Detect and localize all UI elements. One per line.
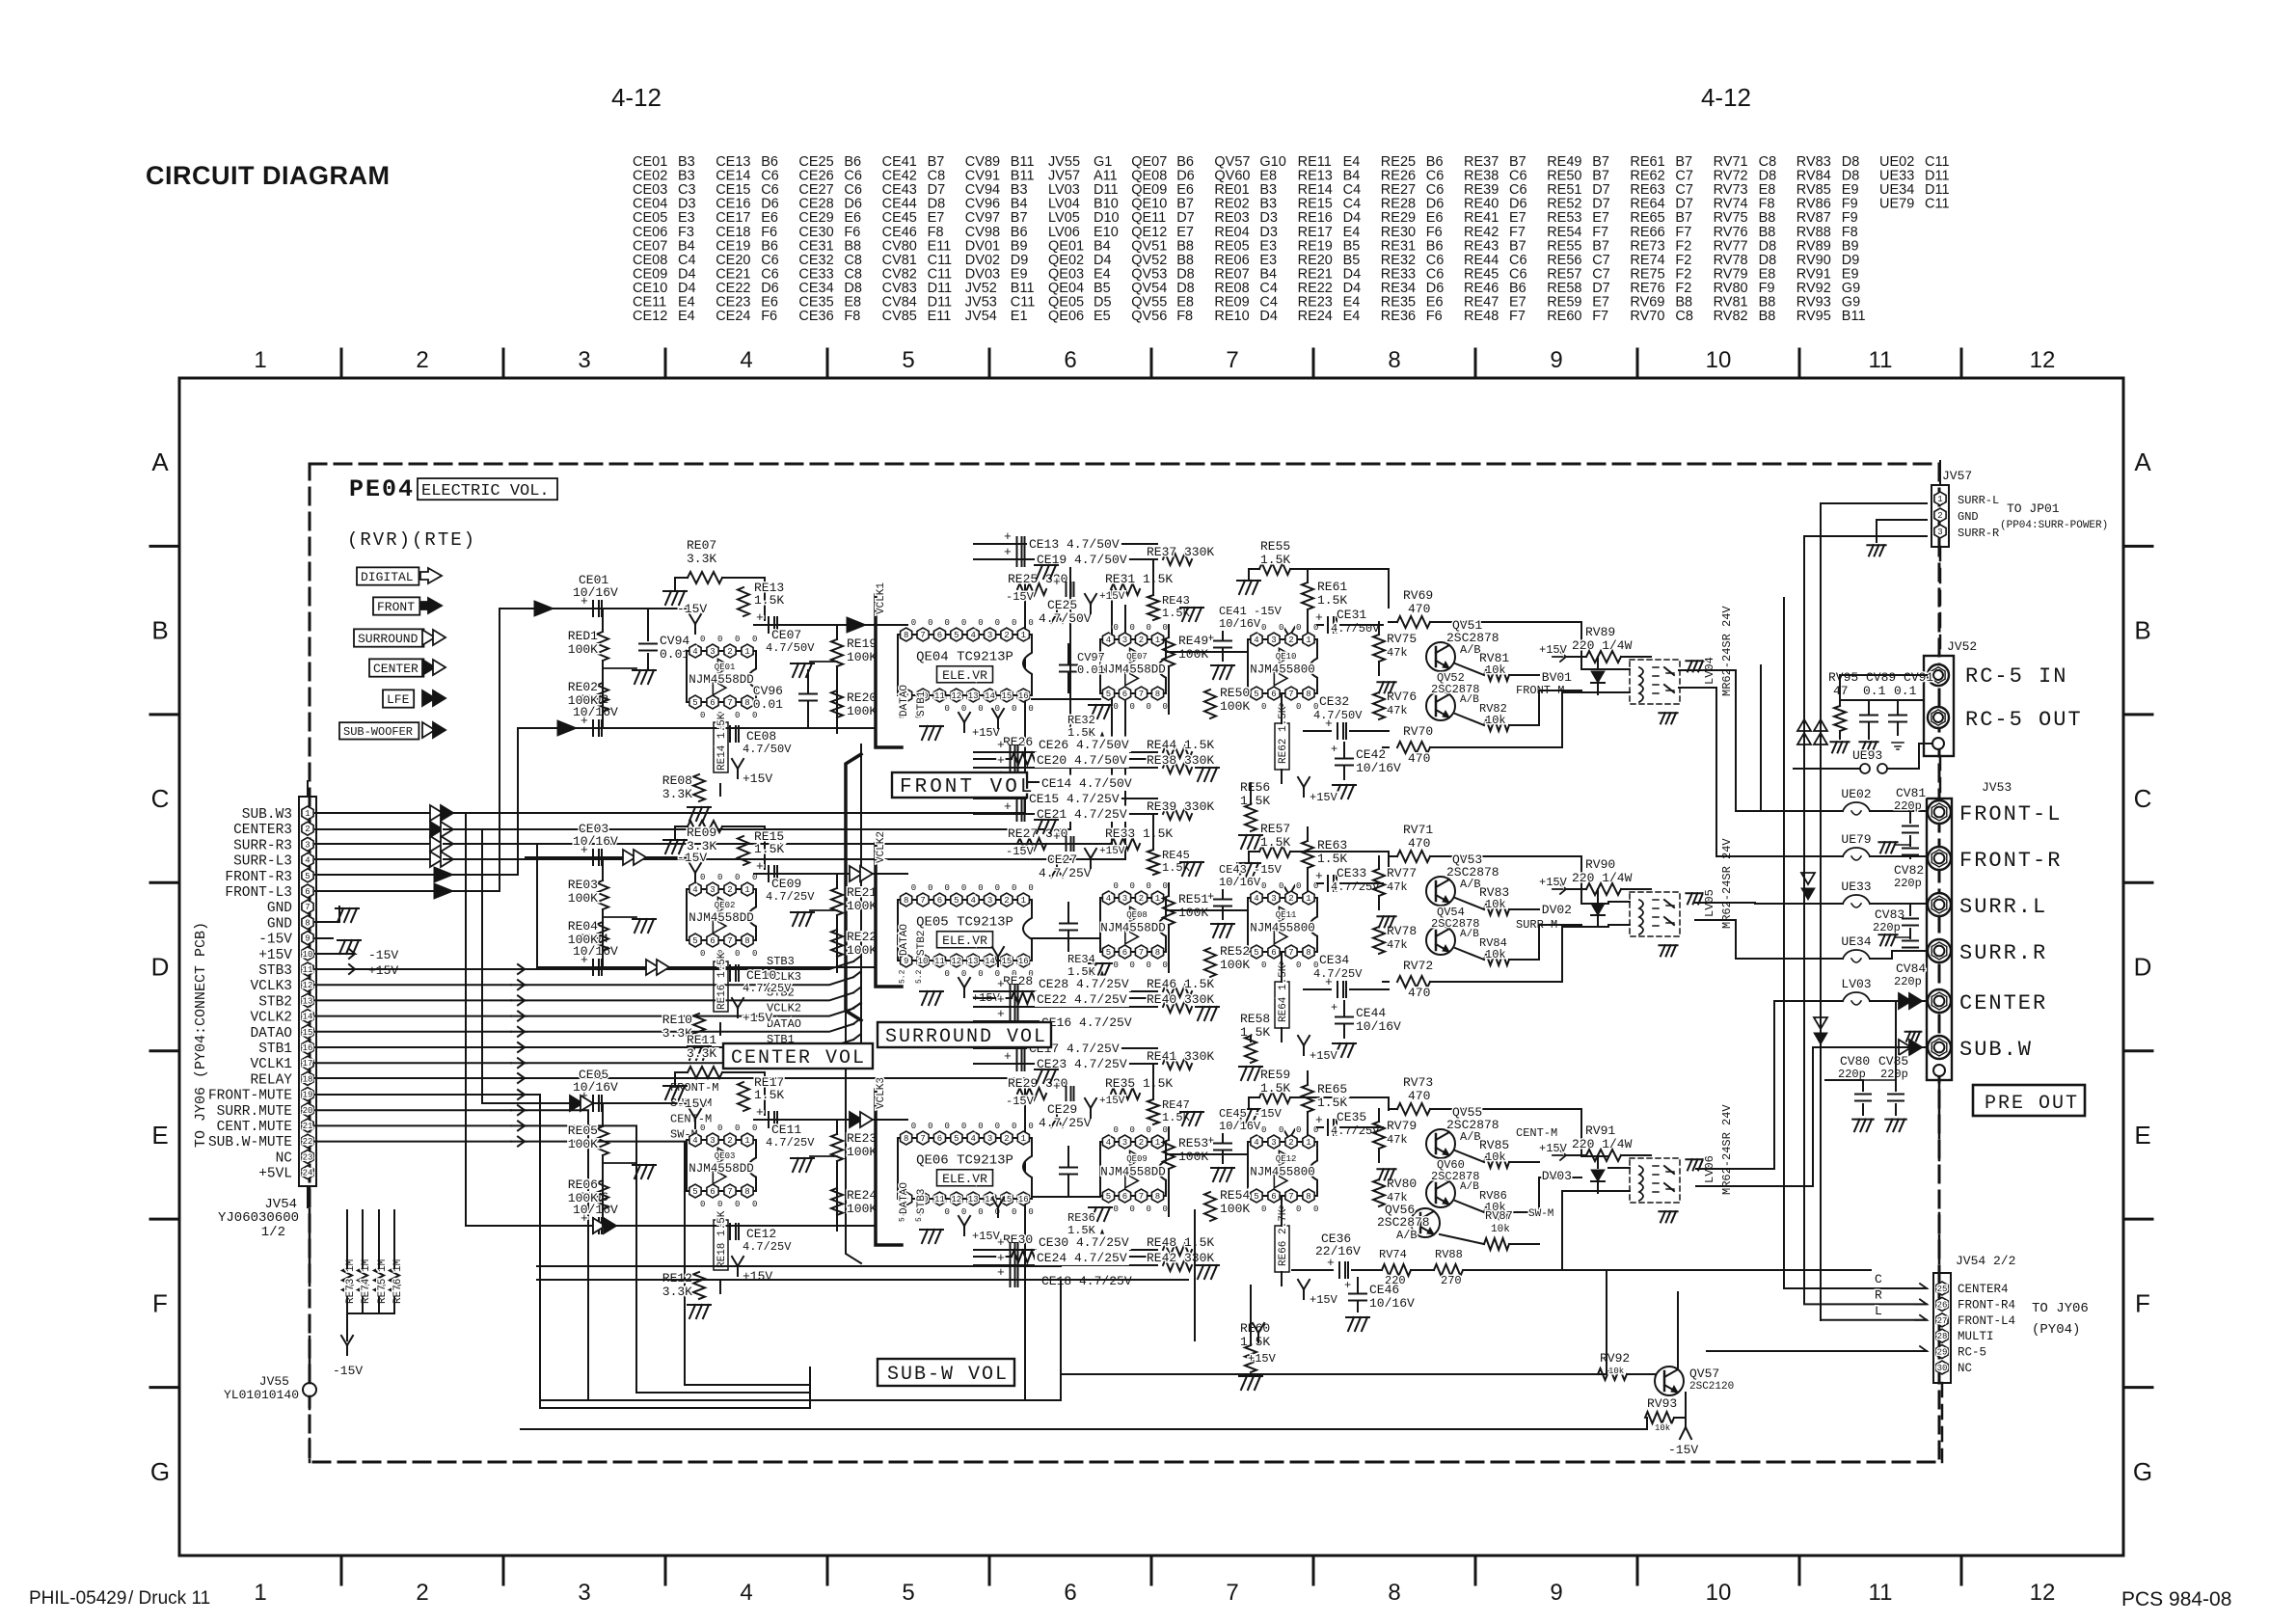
svg-text:47k: 47k: [1387, 646, 1408, 660]
svg-text:2: 2: [1004, 1134, 1009, 1144]
svg-text:220p: 220p: [1894, 975, 1922, 988]
resistor RE11 3.3K: [688, 1067, 722, 1078]
svg-text:10/16V: 10/16V: [573, 585, 618, 600]
wire JV57 SURR-R: [1804, 535, 1927, 537]
dashed line below JV53: [1938, 1080, 1941, 1263]
svg-text:+15V: +15V: [1310, 1049, 1338, 1063]
svg-text:0: 0: [928, 618, 932, 628]
arrow pair up bus2: [1814, 719, 1827, 744]
svg-text:CENT.MUTE: CENT.MUTE: [217, 1120, 292, 1135]
wire front stage1 out: [754, 624, 907, 626]
resistor RV87 10k: [1484, 1238, 1509, 1250]
resistor RE57 1.5K: [1259, 846, 1290, 857]
resistor RE23 100K: [831, 1134, 843, 1161]
power +15V stage3 front: [1303, 787, 1305, 797]
svg-text:13: 13: [968, 1195, 979, 1204]
svg-text:0: 0: [1130, 623, 1135, 633]
svg-text:RE10: RE10: [1214, 309, 1249, 324]
svg-text:0: 0: [1130, 1204, 1135, 1214]
svg-text:CV96: CV96: [753, 684, 783, 698]
wire FRONT-R3 riser: [315, 728, 540, 875]
wire bottom continuation front: [758, 727, 876, 729]
resistor front RE26-type 330: [1012, 753, 1039, 765]
svg-text:SURR-L: SURR-L: [1958, 494, 1999, 507]
svg-text:SURR.R: SURR.R: [1959, 941, 2047, 965]
arrow center mid: [850, 1112, 862, 1127]
svg-text:0: 0: [1130, 1125, 1135, 1135]
svg-text:CE14 4.7/50V: CE14 4.7/50V: [1041, 776, 1132, 791]
svg-text:RE36: RE36: [1067, 1211, 1095, 1225]
resistor RE35 1.5K: [1111, 1088, 1140, 1099]
jack FRONT-R: [1928, 847, 1951, 870]
svg-text:LFE: LFE: [387, 692, 410, 707]
wire input A front: [526, 608, 687, 609]
svg-text:RE12: RE12: [662, 1271, 692, 1286]
wire RE66 column: [1194, 1210, 1196, 1340]
svg-text:SURR.L: SURR.L: [1959, 895, 2047, 919]
output riser CENTER: [1696, 1001, 1794, 1169]
resistor RV88 270: [1434, 1264, 1463, 1276]
wire FRONT-L3 riser: [315, 609, 526, 891]
capacitor CV center: [1060, 1167, 1077, 1169]
svg-text:CE08: CE08: [746, 729, 776, 744]
resistor mid front RE32-type: [1082, 734, 1109, 745]
resistor RE45 1.5K right: [1148, 850, 1159, 875]
svg-text:CV82: CV82: [1894, 863, 1924, 878]
wire QE12 in: [1166, 1153, 1248, 1155]
resistor RV85 10k: [1484, 1156, 1509, 1168]
svg-text:CE46: CE46: [1369, 1283, 1399, 1297]
resistor RE76 1M: [390, 1268, 399, 1297]
svg-text:0: 0: [700, 635, 705, 644]
svg-text:JV55: JV55: [259, 1374, 289, 1389]
resistor RE75 1M: [374, 1268, 384, 1297]
resistor RE25 330: [1017, 583, 1046, 595]
resistor RV75 47k: [1373, 635, 1385, 662]
svg-text:SUB.W-MUTE: SUB.W-MUTE: [208, 1135, 292, 1150]
svg-text:0: 0: [752, 711, 757, 720]
svg-text:100K: 100K: [1220, 699, 1250, 714]
wire long center-bottom: [537, 1279, 1188, 1281]
svg-text:4.7/25V: 4.7/25V: [766, 1136, 815, 1150]
svg-text:1: 1: [744, 1136, 749, 1146]
svg-text:6: 6: [1122, 1192, 1127, 1202]
svg-text:+15V: +15V: [1539, 876, 1568, 889]
JV54 dashed stubs: [307, 781, 309, 797]
arrow input A front: [534, 601, 554, 616]
resistor RE10 3.3K: [693, 1014, 705, 1041]
svg-text:0: 0: [1114, 961, 1119, 970]
wire input B front: [540, 727, 758, 729]
svg-text:4: 4: [1254, 894, 1258, 904]
resistor RV73 470: [1397, 1103, 1430, 1115]
svg-text:100K: 100K: [847, 704, 877, 718]
svg-text:QE03: QE03: [715, 1151, 736, 1161]
svg-text:+15V: +15V: [1099, 591, 1125, 603]
svg-text:1: 1: [1306, 1138, 1310, 1148]
svg-text:F8: F8: [844, 309, 860, 324]
legend FRONT: [373, 597, 419, 614]
svg-text:+15V: +15V: [743, 1269, 772, 1284]
svg-text:6: 6: [1271, 1192, 1276, 1202]
svg-text:0: 0: [752, 1123, 757, 1133]
jack SUB.W: [1928, 1036, 1951, 1059]
jack SURR.R: [1928, 939, 1951, 962]
svg-text:0: 0: [717, 873, 722, 882]
svg-text:RV70: RV70: [1403, 724, 1433, 739]
capacitor CE30 line: [974, 1249, 1157, 1251]
inductor UE33: [1843, 895, 1870, 904]
wire center stage1 out: [754, 1119, 907, 1121]
inductor UE02: [1843, 802, 1870, 811]
svg-text:+: +: [997, 992, 1005, 1007]
svg-text:+15V: +15V: [1248, 1352, 1277, 1366]
svg-text:ELE.VR: ELE.VR: [942, 934, 987, 948]
svg-text:+15V: +15V: [1539, 1142, 1568, 1155]
label SUB-W VOL: [878, 1359, 1014, 1386]
svg-text:RV79: RV79: [1387, 1119, 1417, 1133]
op-amp QE08 NJM4558DD: [1100, 898, 1166, 952]
svg-text:CE13 4.7/50V: CE13 4.7/50V: [1029, 537, 1120, 552]
arrow input B surround: [646, 960, 659, 975]
power +15V topnet center: [1090, 1108, 1092, 1118]
svg-text:RV69: RV69: [1403, 588, 1433, 603]
svg-text:RV73: RV73: [1403, 1075, 1433, 1090]
svg-text:0: 0: [1012, 704, 1016, 714]
svg-text:4: 4: [305, 856, 310, 866]
svg-text:(PY04): (PY04): [2032, 1322, 2080, 1338]
svg-text:3.3K: 3.3K: [687, 1046, 716, 1061]
svg-text:3: 3: [1122, 1138, 1127, 1148]
svg-text:RE20: RE20: [847, 690, 877, 705]
svg-text:0: 0: [1296, 1204, 1301, 1214]
svg-text:RE04: RE04: [568, 919, 598, 934]
wire out bottom surround: [1383, 981, 1389, 983]
resistor RV83 10k: [1484, 904, 1509, 915]
resistor RE44-type front: [1163, 746, 1192, 758]
diode DV02: [1597, 889, 1599, 902]
svg-text:1.5K: 1.5K: [1317, 1096, 1347, 1110]
svg-text:4: 4: [970, 1134, 975, 1144]
svg-text:0: 0: [1130, 702, 1135, 712]
svg-text:10: 10: [918, 957, 929, 966]
svg-text:RE65: RE65: [1317, 1082, 1347, 1096]
output riser SUB.W: [1696, 1047, 1896, 1186]
power +15V topnet front: [1090, 604, 1092, 613]
wire input B center: [540, 1225, 758, 1227]
column numbers bottom: [254, 1580, 2055, 1606]
svg-text:(RVR)(RTE): (RVR)(RTE): [347, 529, 476, 551]
svg-text:SURR-L3: SURR-L3: [233, 854, 292, 870]
svg-text:CIRCUIT DIAGRAM: CIRCUIT DIAGRAM: [146, 161, 390, 190]
svg-text:6: 6: [937, 896, 942, 906]
svg-text:5.2: 5.2: [915, 969, 924, 984]
svg-text:100K: 100K: [847, 943, 877, 958]
svg-text:STB2: STB2: [916, 931, 928, 956]
svg-text:CE31: CE31: [1337, 608, 1366, 622]
ground JV57 GND pin: [1869, 545, 1874, 555]
svg-text:RE41 330K: RE41 330K: [1147, 1049, 1214, 1064]
svg-text:0: 0: [911, 618, 916, 628]
mute wires: [315, 1094, 511, 1096]
svg-text:CE20 4.7/50V: CE20 4.7/50V: [1037, 753, 1127, 768]
ground QE04: [922, 726, 928, 740]
svg-text:RE63: RE63: [1317, 838, 1347, 853]
svg-text:47k: 47k: [1387, 938, 1408, 952]
svg-text:CENT-M: CENT-M: [1516, 1126, 1557, 1140]
svg-text:2: 2: [416, 1580, 428, 1606]
svg-text:0: 0: [1147, 1125, 1151, 1135]
svg-text:4: 4: [692, 885, 697, 895]
resistor RE54 100K: [1204, 1192, 1216, 1221]
capacitor CE04: [592, 960, 594, 975]
resistor center RE26-type 330: [1012, 1251, 1039, 1262]
diode BV01: [1597, 657, 1599, 669]
wire to relay top surround: [1581, 856, 1608, 904]
svg-text:A/B: A/B: [1460, 929, 1479, 940]
svg-text:CV97: CV97: [1077, 651, 1105, 664]
svg-text:7: 7: [1288, 948, 1293, 958]
resistor RE47 1.5K right: [1148, 1099, 1159, 1124]
svg-text:270: 270: [1441, 1274, 1462, 1287]
capacitor CE14-type center: [974, 1279, 1109, 1281]
capacitor CV surround: [1060, 923, 1077, 925]
wire sub-w bottom to relay: [1463, 1191, 1608, 1270]
svg-text:1: 1: [1021, 1134, 1026, 1144]
jack CENTER: [1928, 989, 1951, 1013]
svg-text:RV90: RV90: [1585, 857, 1615, 872]
svg-text:0: 0: [1147, 961, 1151, 970]
svg-text:CE12: CE12: [746, 1227, 776, 1241]
legend DIGITAL: [357, 567, 419, 584]
svg-text:MR62-24SR 24V: MR62-24SR 24V: [1720, 606, 1734, 696]
resistor RE03 100K: [597, 880, 608, 909]
svg-text:0: 0: [944, 1207, 949, 1217]
svg-text:15: 15: [1002, 691, 1013, 701]
svg-text:220 1/4W: 220 1/4W: [1572, 1137, 1633, 1151]
resistor RE41 330K: [1163, 1058, 1192, 1069]
svg-text:0.1: 0.1: [1894, 684, 1917, 698]
svg-text:SURR.MUTE: SURR.MUTE: [217, 1104, 292, 1120]
svg-text:+: +: [1053, 575, 1061, 589]
svg-text:E: E: [2134, 1121, 2150, 1150]
svg-text:RE45: RE45: [1162, 849, 1190, 862]
svg-text:0: 0: [1296, 623, 1301, 633]
svg-text:0: 0: [1012, 618, 1016, 628]
svg-text:RE23: RE23: [847, 1131, 877, 1146]
power +15V near RE60: [1257, 1333, 1259, 1342]
resistor RE74 1M: [358, 1268, 367, 1297]
label FRONT VOL: [892, 772, 1027, 798]
svg-text:2: 2: [305, 825, 310, 834]
svg-text:0: 0: [995, 704, 1000, 714]
svg-text:RE09: RE09: [687, 826, 716, 840]
svg-text:+: +: [997, 1235, 1005, 1250]
capacitor CE10 4.7/25V: [729, 965, 731, 981]
svg-text:STB1: STB1: [258, 1042, 292, 1057]
row letters left: [150, 447, 170, 1486]
svg-text:CE33: CE33: [1337, 866, 1366, 880]
wire bottom continuation surround: [758, 966, 876, 968]
svg-text:DATAO: DATAO: [899, 685, 910, 717]
svg-text:14: 14: [303, 1013, 313, 1022]
svg-text:12: 12: [951, 1195, 961, 1204]
svg-text:0: 0: [944, 969, 949, 979]
svg-text:100K: 100K: [568, 933, 598, 947]
arrow SUB.W3: [430, 805, 443, 821]
svg-text:+15V: +15V: [368, 963, 398, 978]
output riser SURR.L: [1695, 903, 1794, 904]
resistor RV79 47k: [1373, 1122, 1385, 1149]
svg-text:4.7/50V: 4.7/50V: [1039, 611, 1092, 626]
arrow pair down bus2: [1814, 1017, 1827, 1029]
relay LV05 MR62-24SR: [1608, 901, 1630, 903]
svg-text:5: 5: [1254, 690, 1258, 699]
svg-text:+: +: [997, 1007, 1005, 1021]
resistor RE06 100K: [597, 1180, 608, 1209]
svg-text:4.7/25V: 4.7/25V: [766, 890, 815, 904]
svg-text:8: 8: [744, 936, 749, 946]
svg-text:100K: 100K: [1178, 1150, 1208, 1164]
svg-text:L: L: [1875, 1304, 1882, 1318]
op-amp QE12 NJM4558DD: [1248, 1142, 1317, 1196]
svg-text:RV91: RV91: [1585, 1123, 1615, 1138]
svg-text:0: 0: [735, 1200, 740, 1209]
svg-text:RV89: RV89: [1585, 625, 1615, 639]
power +15V QE08: [997, 957, 999, 966]
capacitor CE14-type surround: [974, 1020, 1109, 1022]
svg-text:2: 2: [1288, 636, 1293, 645]
svg-text:8: 8: [744, 698, 749, 708]
svg-text:NC: NC: [1958, 1362, 1972, 1375]
svg-text:GND: GND: [267, 916, 292, 932]
svg-text:28: 28: [1937, 1332, 1948, 1341]
svg-text:GND: GND: [267, 901, 292, 916]
svg-text:RC-5: RC-5: [1958, 1346, 1986, 1360]
arrow SURR-L3: [430, 852, 443, 867]
capacitor CE15 4.7/25V line: [974, 798, 1157, 799]
svg-text:QE12: QE12: [1276, 1154, 1297, 1164]
resistor RE07 3.3K: [688, 572, 722, 583]
svg-text:G: G: [2133, 1457, 2152, 1486]
svg-text:TO JY06 (PY04:CONNECT PCB): TO JY06 (PY04:CONNECT PCB): [193, 922, 209, 1148]
svg-text:20: 20: [303, 1106, 313, 1116]
svg-text:RV82: RV82: [1714, 309, 1748, 324]
capacitor CE24 line: [974, 1264, 1157, 1266]
thick bus vertical between sections: [846, 754, 861, 1020]
diode DV03: [1597, 1155, 1599, 1168]
bus label pipe center: [876, 1090, 902, 1245]
svg-text:0: 0: [1296, 961, 1301, 970]
svg-text:RE44 1.5K: RE44 1.5K: [1147, 738, 1214, 752]
label PRE OUT box: [1973, 1085, 2085, 1116]
svg-text:STB3: STB3: [767, 955, 795, 968]
svg-text:SW-M: SW-M: [1528, 1208, 1553, 1220]
svg-text:RE06: RE06: [568, 1177, 598, 1192]
svg-text:+: +: [1331, 1001, 1337, 1015]
svg-text:0: 0: [978, 883, 983, 893]
svg-text:0: 0: [700, 1200, 705, 1209]
svg-text:6: 6: [1271, 948, 1276, 958]
resistor RE18 1.5K boxed: [714, 1220, 728, 1270]
power -15V center opamp: [694, 1119, 696, 1128]
svg-text:4: 4: [1254, 636, 1258, 645]
transistor QV57 2SC2120: [1655, 1367, 1684, 1395]
op-amp QE09 NJM4558DD: [1100, 1142, 1166, 1196]
svg-text:CENTER VOL: CENTER VOL: [731, 1047, 866, 1069]
output riser FRONT-L: [1679, 670, 1794, 811]
resistor RE39 330K: [1163, 808, 1192, 820]
svg-text:100K: 100K: [847, 650, 877, 664]
svg-text:2: 2: [1139, 894, 1144, 904]
svg-text:1.5K: 1.5K: [1317, 593, 1347, 608]
resistor RE15 1.5K: [738, 836, 749, 865]
transistor QV52 2SC2878: [1426, 691, 1455, 720]
power +15V QE09: [997, 1207, 999, 1217]
svg-text:11: 11: [934, 1195, 945, 1204]
svg-text:6: 6: [937, 1134, 942, 1144]
resistor RV92 10k: [1598, 1368, 1627, 1380]
svg-text:7: 7: [1139, 948, 1144, 958]
svg-text:4: 4: [1106, 636, 1111, 645]
svg-text:8: 8: [904, 896, 908, 906]
svg-text:47k: 47k: [1387, 1133, 1408, 1147]
svg-text:7: 7: [920, 631, 925, 640]
svg-text:CV85: CV85: [1878, 1054, 1908, 1069]
svg-text:220p: 220p: [1894, 877, 1922, 890]
resistor RE19 100K: [831, 639, 843, 666]
capacitor CE01: [592, 601, 594, 616]
svg-text:RE21: RE21: [847, 885, 877, 900]
svg-text:6: 6: [1122, 690, 1127, 699]
svg-text:0: 0: [1313, 1204, 1318, 1214]
svg-text:100K: 100K: [568, 693, 598, 708]
wire stage2-stage3 surround: [1032, 937, 1100, 939]
svg-text:RE66 2.7K: RE66 2.7K: [1278, 1208, 1289, 1266]
IC QE04 TC9213P: [898, 635, 1032, 695]
capacitor CE07 4.7/50V: [768, 617, 770, 633]
svg-text:12: 12: [951, 691, 961, 701]
svg-text:6: 6: [937, 631, 942, 640]
svg-text:ELE.VR: ELE.VR: [942, 668, 987, 683]
resistor RE33 1.5K: [1111, 838, 1140, 850]
svg-text:+: +: [756, 1105, 764, 1120]
svg-text:2SC2878: 2SC2878: [1377, 1215, 1430, 1230]
svg-text:2: 2: [1288, 894, 1293, 904]
svg-text:+: +: [1315, 610, 1323, 625]
svg-text:D: D: [2134, 953, 2152, 982]
svg-text:0: 0: [1261, 702, 1266, 712]
svg-text:23: 23: [303, 1152, 313, 1162]
svg-text:9: 9: [904, 957, 908, 966]
svg-text:8: 8: [1306, 1192, 1310, 1202]
svg-text:RV70: RV70: [1630, 309, 1664, 324]
svg-text:16: 16: [303, 1043, 313, 1053]
svg-text:TO JP01: TO JP01: [2007, 501, 2060, 516]
svg-text:1.5K: 1.5K: [754, 593, 784, 608]
svg-text:12: 12: [303, 981, 313, 990]
svg-text:RE48: RE48: [1464, 309, 1499, 324]
resistor RE04 100K: [597, 922, 608, 951]
resistor RE16 1.5K boxed: [714, 961, 728, 1012]
svg-text:RE32: RE32: [1067, 714, 1095, 727]
svg-text:19: 19: [303, 1091, 313, 1100]
svg-text:0: 0: [735, 873, 740, 882]
svg-text:1.5K: 1.5K: [754, 842, 784, 856]
svg-text:7: 7: [920, 896, 925, 906]
resistor RV82 10k: [1484, 719, 1509, 731]
capacitor CE02: [592, 720, 594, 736]
